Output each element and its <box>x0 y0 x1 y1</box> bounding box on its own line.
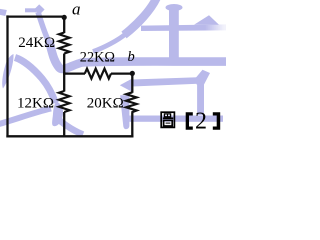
watermark diagonal stroke top-right <box>124 0 157 35</box>
left lenticular bracket <box>186 112 193 129</box>
wire node a to resistor 24K <box>63 17 65 33</box>
watermark brush tip blob <box>52 102 63 127</box>
figure label glyph tu (drawn) <box>161 112 174 127</box>
resistor R4 20K zigzag <box>126 92 137 112</box>
watermark vertical blob V3 <box>120 95 129 129</box>
watermark left teardrop stroke <box>2 54 13 89</box>
watermark vertical band V2 <box>197 84 204 116</box>
watermark diagonal stroke tip <box>93 34 126 52</box>
resistor R1 24K zigzag <box>59 33 70 54</box>
watermark lower-left stroke B1 <box>15 58 56 104</box>
node a junction dot <box>62 15 67 20</box>
svg-text:2: 2 <box>195 109 207 135</box>
watermark wedge above bar <box>194 15 219 24</box>
watermark lower-left stroke B2 <box>0 109 51 125</box>
wire 24K to mid junction <box>63 54 65 75</box>
resistor R2 12K zigzag <box>59 91 70 112</box>
wire top <box>6 15 64 17</box>
watermark horizontal band H3 <box>129 116 223 122</box>
wire node b to resistor 20K <box>131 74 133 93</box>
watermark swoosh upper segment <box>38 12 50 44</box>
watermark arrowhead diamond top-left <box>34 4 45 15</box>
wire mid junction to 12K <box>63 72 65 92</box>
watermark left-pointing arrowhead at band start <box>120 78 133 92</box>
wire 12K to bottom <box>63 112 65 137</box>
circuit <box>6 15 136 137</box>
wire mid horizontal left of 22K <box>63 72 85 74</box>
right lenticular bracket <box>213 112 220 129</box>
svg-text:24KΩ: 24KΩ <box>18 35 55 51</box>
wire bottom <box>6 135 133 137</box>
node b junction dot <box>130 71 135 76</box>
watermark arrow band horizontal <box>132 77 198 86</box>
svg-text:22KΩ: 22KΩ <box>80 50 115 66</box>
watermark horizontal bar top-right <box>141 24 226 31</box>
svg-text:20KΩ: 20KΩ <box>87 96 124 112</box>
watermark arrowhead pointing up-right <box>196 70 210 86</box>
svg-text:12KΩ: 12KΩ <box>17 96 54 112</box>
watermark vertical bar cap <box>166 4 183 11</box>
watermark arrow tail bar top-left <box>25 8 36 12</box>
resistor R3 22K zigzag <box>85 69 111 79</box>
watermark bottom tail stroke <box>56 118 83 135</box>
wire left border vertical <box>6 15 8 137</box>
wire mid horizontal right of 22K to node b <box>111 72 132 74</box>
wire 20K to bottom right corner <box>131 112 133 137</box>
svg-text:a: a <box>72 0 81 19</box>
watermark vertical bar of character <box>169 6 179 59</box>
svg-text:b: b <box>128 49 135 65</box>
watermark swoosh curve into bottom bar <box>49 41 226 69</box>
watermark tick at left edge <box>0 9 7 17</box>
